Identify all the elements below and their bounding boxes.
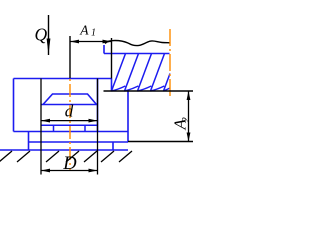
A2 dimension line	[188, 91, 190, 142]
bore top line	[41, 104, 97, 106]
A1 extension right / cutter left edge	[111, 38, 113, 79]
force Q line	[48, 15, 50, 55]
dimension extension line left (d/D)	[40, 79, 42, 175]
svg-text:Q: Q	[35, 25, 48, 45]
centerline cutter (orange)	[169, 29, 171, 97]
label A2	[170, 117, 192, 131]
locating cone trapezoid	[43, 94, 97, 105]
ground hatch tick 2	[17, 151, 30, 162]
A1 dimension line	[70, 41, 112, 43]
A1 arrow right	[103, 40, 112, 44]
svg-text:d: d	[65, 102, 74, 121]
ground line	[0, 149, 128, 151]
ground hatch tick 7	[119, 151, 132, 162]
A2 lower extension line	[128, 141, 193, 143]
fixture body right edge	[97, 79, 99, 132]
centerline main (orange)	[69, 79, 71, 170]
base plate top line	[29, 141, 129, 143]
cutter tooth face 4	[151, 54, 165, 92]
inner plate joint right	[84, 125, 86, 131]
support block right edge	[127, 91, 129, 142]
D arrow right	[89, 169, 98, 173]
D dimension line	[41, 170, 98, 172]
cutter tooth back 1	[112, 86, 126, 91]
fixture body top edge	[14, 78, 112, 80]
A1 arrow left	[70, 40, 79, 44]
cutter tooth back curve	[151, 86, 165, 91]
cutter top edge	[104, 53, 170, 55]
D arrow left	[41, 169, 50, 173]
svg-text:A: A	[79, 22, 89, 37]
cutter tooth face 1	[112, 54, 126, 92]
svg-text:2: 2	[181, 117, 192, 123]
dimension extension line right (d/D)	[97, 79, 99, 175]
cutter tooth face 3	[138, 54, 152, 92]
d arrow right	[89, 119, 98, 123]
ground hatch tick 3	[46, 151, 59, 162]
ground hatch tick 4	[66, 151, 79, 162]
base joint vertical	[112, 142, 114, 150]
fixture body bottom edge	[14, 131, 129, 133]
break wavy line	[105, 41, 170, 46]
workpiece seat line (A2 upper extension)	[104, 90, 194, 92]
base key left edge	[28, 132, 30, 151]
cutter left edge lower	[111, 79, 113, 92]
A1 extension left / over centerline	[69, 36, 71, 78]
A2 arrow bottom	[187, 133, 191, 142]
d dimension line	[41, 120, 98, 122]
A2 arrow top	[187, 91, 191, 100]
inner plate line	[41, 124, 98, 126]
cutter left step vertical	[103, 45, 105, 54]
cutter tooth back 3	[138, 86, 152, 91]
ground hatch tick 5	[84, 151, 97, 162]
fixture body left edge	[13, 79, 15, 132]
d arrow left	[41, 119, 50, 123]
svg-text:D: D	[62, 154, 77, 174]
force Q arrowhead	[47, 39, 51, 55]
svg-text:1: 1	[91, 28, 96, 39]
ground hatch tick 1	[0, 151, 12, 162]
ground hatch tick 6	[101, 151, 114, 162]
cutter tooth face 2	[125, 54, 139, 92]
cutter tooth face 5	[164, 74, 171, 92]
inner plate joint left	[53, 125, 55, 131]
cutter tooth back 5 (corner curve)	[164, 88, 171, 91]
cutter tooth back 2	[125, 86, 139, 91]
